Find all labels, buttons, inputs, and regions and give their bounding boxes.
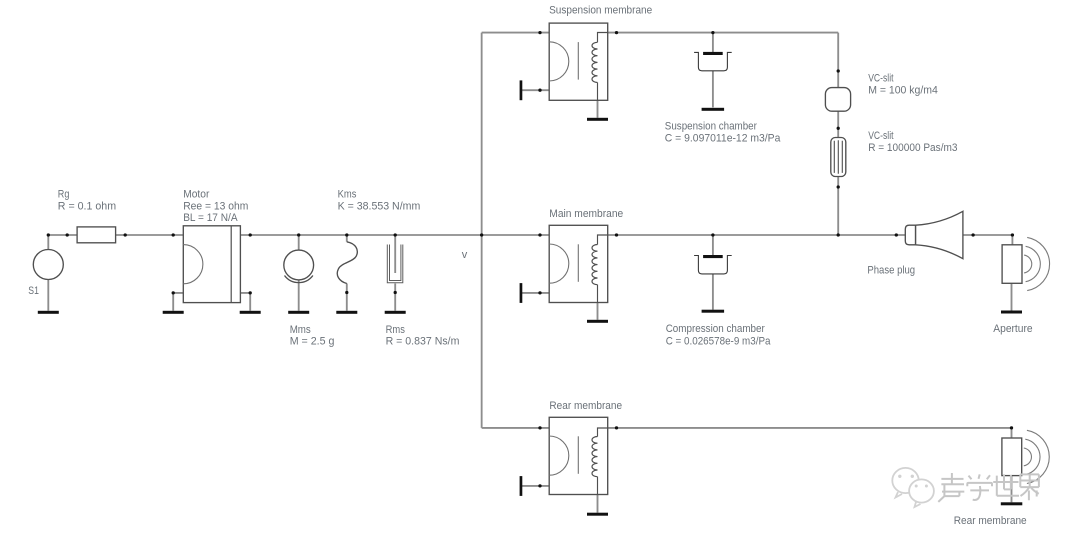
pin dot: Rms bottom: [394, 291, 397, 294]
ground (suspension chamber): [702, 108, 725, 111]
svg-text:R = 0.1 ohm: R = 0.1 ohm: [58, 200, 116, 212]
ground (Mms): [288, 311, 309, 314]
ground (Kms): [336, 311, 357, 314]
ground (Rms): [385, 311, 406, 314]
junction: Rms on bus: [394, 233, 397, 236]
wire: main membrane ground lead: [597, 303, 599, 320]
svg-text:VC-slit: VC-slit: [868, 72, 893, 84]
wire: compression chamber leads: [712, 235, 714, 310]
svg-text:VC-slit: VC-slit: [868, 130, 893, 142]
wire: rear anchor link: [521, 485, 549, 487]
wire: main bus y=235: [48, 234, 1012, 236]
svg-text:Ree = 13 ohm: Ree = 13 ohm: [183, 200, 248, 212]
ground (S1): [38, 311, 59, 314]
svg-text:Motor: Motor: [183, 189, 210, 201]
wire: top bus y=32.5: [482, 32, 839, 34]
svg-text:BL = 17 N/A: BL = 17 N/A: [183, 212, 238, 224]
aperture radiator: [1002, 237, 1049, 290]
damper Rms: [387, 245, 403, 283]
anchor (rear membrane): [520, 476, 523, 496]
pin dot: motor right: [249, 233, 252, 236]
svg-text:C = 0.026578e-9 m3/Pa: C = 0.026578e-9 m3/Pa: [666, 335, 772, 347]
suspension chamber: chamber cup: [694, 52, 732, 70]
pin dot: VC-slit R bottom: [837, 185, 840, 188]
wire: motor left ground lead: [173, 293, 183, 311]
wire: suspension membrane ground lead: [597, 100, 599, 118]
ground (suspension membrane): [587, 118, 608, 121]
compression chamber: plate: [703, 255, 723, 258]
wire: rear bus y=428: [482, 427, 1012, 429]
svg-text:Suspension membrane: Suspension membrane: [549, 5, 652, 17]
voltage source S1: [33, 250, 63, 280]
svg-text:Main membrane: Main membrane: [549, 208, 623, 220]
svg-text:M = 2.5 g: M = 2.5 g: [290, 335, 335, 347]
junction: suspension chamber on top bus: [711, 31, 714, 34]
wire: Mms drop: [298, 235, 300, 311]
pin dot: rear membrane right: [615, 426, 618, 429]
VC-slit mass element: [825, 88, 850, 112]
wire: VC vertical x=838: [837, 33, 839, 235]
svg-text:C = 9.097011e-12 m3/Pa: C = 9.097011e-12 m3/Pa: [665, 132, 781, 144]
wire: main anchor link: [521, 292, 549, 294]
svg-text:R = 0.837 Ns/m: R = 0.837 Ns/m: [386, 335, 460, 347]
wire: Kms drop: [346, 235, 348, 311]
suspension chamber: plate: [703, 52, 723, 55]
pin dot: phase plug right: [971, 233, 974, 236]
svg-text:v: v: [462, 249, 468, 261]
svg-text:Compression chamber: Compression chamber: [666, 323, 765, 335]
pin dot: VC-slit M/R middle: [837, 127, 840, 130]
junction: compression chamber on bus: [711, 233, 714, 236]
svg-text:Rms: Rms: [386, 324, 406, 336]
junction: VC line on bus: [837, 233, 840, 236]
pin dot: Rg right: [124, 233, 127, 236]
pin dot: suspension membrane anchor: [538, 89, 541, 92]
ground (rear speaker): [1001, 502, 1023, 505]
pin dot: motor lower left: [172, 291, 175, 294]
anchor (suspension membrane): [520, 80, 523, 100]
wire: suspension chamber leads: [712, 33, 714, 108]
node: rear speaker corner: [1010, 426, 1013, 429]
svg-text:M = 100 kg/m4: M = 100 kg/m4: [868, 84, 938, 96]
svg-text:S1: S1: [28, 285, 39, 297]
junction: Mms on bus: [297, 233, 300, 236]
ground (aperture): [1001, 311, 1022, 314]
VC-slit resistance element: [831, 138, 846, 177]
pin dot: Rg left: [66, 233, 69, 236]
motor block (Ree/BL): [183, 226, 240, 303]
pin dot: Kms bottom: [345, 291, 348, 294]
wire: aperture drop: [1011, 235, 1013, 245]
svg-text:Suspension chamber: Suspension chamber: [665, 120, 757, 132]
svg-text:Rear membrane: Rear membrane: [549, 400, 622, 412]
junction: bus x left vertical: [480, 233, 483, 236]
wire: rear speaker ground lead: [1011, 476, 1013, 503]
rear membrane radiator: [1002, 430, 1049, 483]
wire: suspension anchor link: [521, 89, 549, 91]
svg-text:Mms: Mms: [290, 324, 312, 336]
pin dot: VC-slit M top: [837, 69, 840, 72]
svg-text:Aperture: Aperture: [993, 323, 1032, 335]
pin dot: motor lower right: [249, 291, 252, 294]
compression chamber: chamber cup: [694, 256, 732, 274]
wire: rear speaker drop: [1011, 428, 1013, 438]
main membrane block: block body: [549, 225, 608, 302]
svg-text:Rear membrane: Rear membrane: [954, 515, 1027, 527]
wire: Rms rod and drop: [394, 235, 396, 311]
ground (rear membrane): [587, 513, 608, 516]
anchor (main membrane): [520, 283, 523, 303]
ground (motor right): [240, 311, 261, 314]
pin dot: main membrane anchor: [538, 291, 541, 294]
wire: S1 riser: [47, 235, 49, 311]
svg-text:Rg: Rg: [58, 189, 70, 201]
pin dot: suspension membrane right: [615, 31, 618, 34]
spring Kms: [337, 242, 357, 284]
ground (compression chamber): [702, 310, 725, 313]
ground (motor left): [163, 311, 184, 314]
pin dot: rear membrane anchor: [538, 484, 541, 487]
suspension membrane block: block body: [549, 23, 608, 100]
ground (main membrane): [587, 320, 608, 323]
svg-text:Phase plug: Phase plug: [867, 265, 915, 277]
pin dot: main membrane right: [615, 233, 618, 236]
rear membrane block: block body: [549, 417, 608, 494]
wire: left vertical x=481.5: [481, 33, 483, 428]
junction: Kms on bus: [345, 233, 348, 236]
svg-text:Kms: Kms: [338, 189, 357, 201]
resistor Rg: [77, 227, 116, 243]
svg-text:R = 100000 Pas/m3: R = 100000 Pas/m3: [868, 142, 957, 154]
pin dot: phase plug left: [895, 233, 898, 236]
node: S1 top corner: [47, 233, 50, 236]
pin dot: rear membrane left: [538, 426, 541, 429]
mass Mms: [284, 250, 314, 283]
watermark chinese text 声学世界: [938, 473, 1039, 502]
watermark wechat logo: [892, 468, 934, 507]
pin dot: suspension membrane left: [538, 31, 541, 34]
wire: rear membrane ground lead: [597, 495, 599, 513]
node: aperture corner: [1011, 233, 1014, 236]
wire: motor right ground lead: [240, 293, 250, 311]
wire: aperture ground lead: [1011, 282, 1013, 310]
svg-text:K = 38.553 N/mm: K = 38.553 N/mm: [338, 200, 421, 212]
phase plug horn: [905, 211, 963, 258]
pin dot: motor left: [172, 233, 175, 236]
pin dot: main membrane left: [538, 233, 541, 236]
